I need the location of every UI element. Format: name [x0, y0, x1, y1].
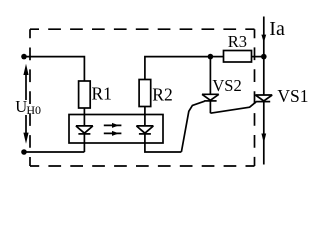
wire: anode rail top (Ia input)	[263, 17, 265, 96]
photodiode VD2 (receiving diode, right)	[136, 126, 153, 134]
wire: R1 bottom to LED1 anode	[83, 108, 85, 126]
node: bottom-left input terminal	[21, 149, 27, 155]
wire: junction to R3 left terminal	[210, 56, 223, 58]
dashed enclosure (solid-state relay module outline)	[30, 29, 255, 166]
optocoupler U1 package outline	[69, 115, 163, 144]
resistor R2	[139, 80, 151, 107]
light arrow (upper)	[104, 123, 122, 128]
svg-text:R3: R3	[228, 32, 247, 51]
node: VS2 anode / R3 junction	[208, 54, 214, 60]
svg-text:R2: R2	[152, 85, 172, 105]
wire: VS2 anode lead	[209, 57, 211, 95]
wire: bottom-left terminal to LED1 cathode lead	[24, 151, 84, 153]
svg-text:VS1: VS1	[277, 86, 308, 106]
svg-text:R1: R1	[92, 84, 112, 104]
wire: VS2 cathode to VS1 gate	[210, 101, 257, 113]
wire: R3 right terminal to anode rail node	[252, 56, 264, 58]
arrow: Ia current direction	[261, 35, 266, 43]
arrow: U_H0 lower (pointing down to bottom terminal)	[23, 115, 28, 144]
thyristor VS1 (main)	[255, 95, 272, 102]
wire: R2 top up and right to node at VS2 anode	[145, 57, 211, 80]
node: top-left input terminal	[21, 54, 27, 60]
svg-text:H0: H0	[26, 103, 41, 117]
wire: R2 bottom to photodiode anode	[144, 107, 146, 126]
wire: VS2 gate lead (from bottom rail)	[181, 101, 204, 152]
LED VD1 (emitting diode, left)	[76, 126, 93, 134]
arrow: U_H0 upper (pointing up to top terminal)	[23, 64, 28, 100]
svg-text:VS2: VS2	[212, 76, 241, 95]
svg-text:Ia: Ia	[269, 18, 285, 40]
node: anode rail / R3 junction	[261, 54, 267, 60]
thyristor VS2 (auxiliary)	[202, 94, 219, 113]
arrow: output current direction	[261, 134, 266, 144]
resistor R1	[79, 81, 91, 108]
wire: top-left terminal to R1 top	[24, 57, 84, 81]
wire: photodiode cathode down and right to VS2 gate	[145, 134, 182, 152]
wire: LED1 cathode down to bottom rail	[83, 134, 85, 152]
svg-text:U: U	[15, 97, 27, 116]
light arrow (lower)	[104, 131, 122, 136]
resistor R3	[224, 51, 252, 63]
wire: VS1 cathode rail to bottom output	[263, 102, 265, 165]
